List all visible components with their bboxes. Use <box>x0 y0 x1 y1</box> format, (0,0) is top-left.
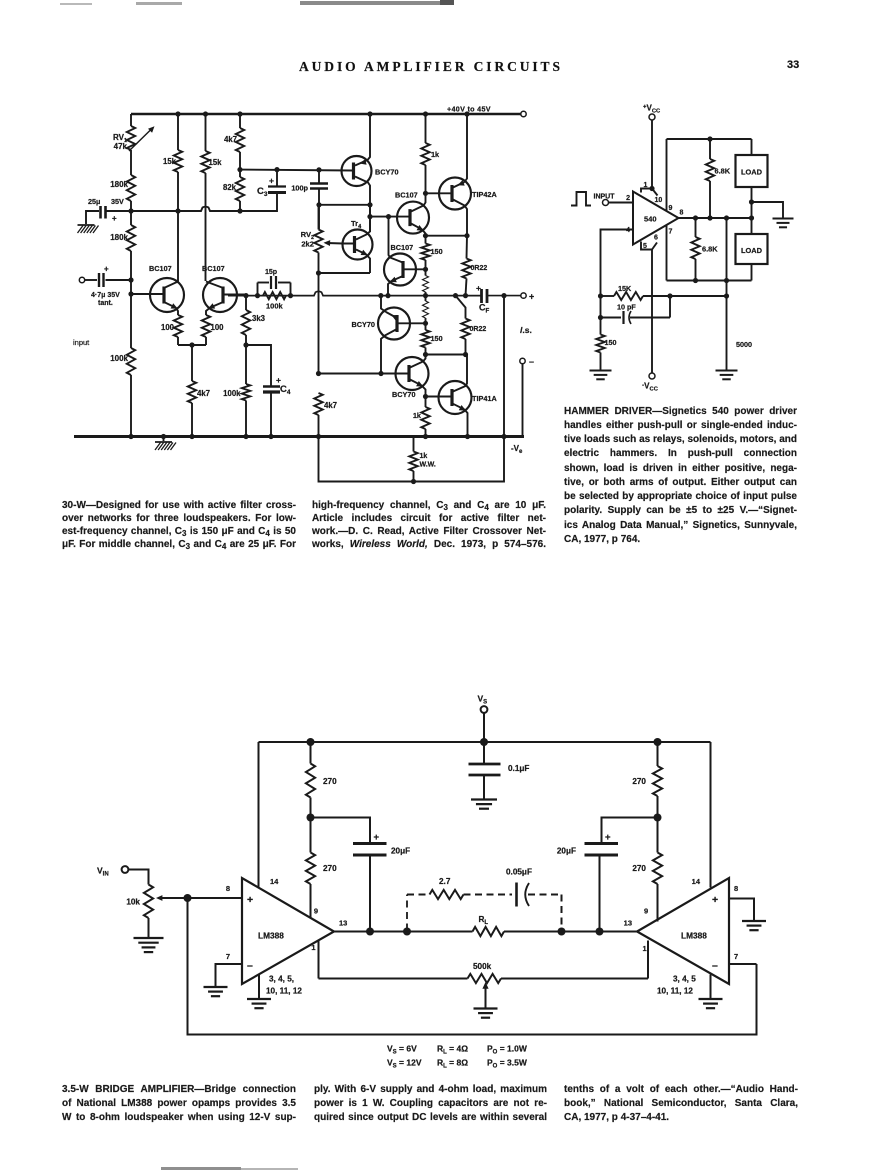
svg-text:-VCC: -VCC <box>642 382 659 393</box>
capacitor 100p <box>310 170 328 230</box>
svg-text:3k3: 3k3 <box>252 314 266 323</box>
ground 500k wiper <box>474 1009 498 1018</box>
potentiometer 10k <box>144 885 188 919</box>
wire 6.8K lower stubs <box>695 218 697 281</box>
label BC107 Tr6 <box>395 191 418 200</box>
svg-text:BC107: BC107 <box>395 191 418 200</box>
wire +40V supply rail with junction nodes <box>131 111 521 116</box>
wire output rail diagonal <box>456 296 466 319</box>
label 100k lower <box>223 389 241 398</box>
label 20uF left <box>391 847 410 856</box>
wire 270 right link <box>657 818 659 853</box>
transistor BC107 Tr2 <box>203 173 246 315</box>
svg-text:270: 270 <box>323 864 337 873</box>
svg-text:+40V to 45V: +40V to 45V <box>447 105 491 114</box>
wire output sense column <box>724 218 729 370</box>
wire 100p column to RV2 <box>318 205 320 230</box>
label right pins 345 <box>657 975 696 996</box>
wire left pin9 <box>310 884 312 918</box>
resistor 100k feedback <box>263 292 286 299</box>
svg-text:13: 13 <box>624 919 632 928</box>
wire 180k to node <box>130 201 132 211</box>
svg-text:LOAD: LOAD <box>741 168 763 177</box>
label 270 right lower <box>632 864 646 873</box>
label +40V to 45V <box>447 105 491 114</box>
label 82k <box>223 183 237 192</box>
svg-text:7: 7 <box>734 952 738 961</box>
ground hatched rail <box>155 434 176 450</box>
svg-text:6.8K: 6.8K <box>715 167 731 176</box>
wire ground rail <box>74 434 524 439</box>
svg-text:Tr4: Tr4 <box>351 219 362 230</box>
label pin 6 <box>654 235 658 242</box>
svg-text:+: + <box>104 265 109 274</box>
label 2.7 <box>439 877 451 886</box>
wire node to 100k lower <box>245 345 247 384</box>
resistor 1k WW <box>409 452 417 472</box>
svg-text:270: 270 <box>632 864 646 873</box>
wire minus terminal down <box>522 364 524 437</box>
label 150 upper <box>431 247 443 256</box>
label CF <box>479 303 490 315</box>
label +Vcc <box>643 104 661 115</box>
svg-text:1: 1 <box>643 944 647 953</box>
svg-text:9: 9 <box>669 205 673 212</box>
resistor 270 left lower <box>306 853 315 885</box>
ground 0.1uF <box>471 800 497 809</box>
transistor BC107 Tr6 <box>370 193 429 235</box>
label 100 right <box>211 323 225 332</box>
wire left pin14 drop <box>258 742 260 888</box>
resistor 4k7 top <box>236 128 244 152</box>
resistor 100 right <box>202 315 210 337</box>
wire speaker return <box>503 296 505 437</box>
label -Vcc <box>642 382 659 393</box>
label 3k3 <box>252 314 266 323</box>
svg-text:BCY70: BCY70 <box>392 390 416 399</box>
wire Tr4 emitter line <box>319 272 371 274</box>
wire rail to RV1 <box>130 114 132 126</box>
terminal +Vcc <box>649 114 655 120</box>
transistor TIP41A <box>439 355 472 437</box>
resistor 150 upper <box>421 244 429 261</box>
wire LOAD1 to LOAD2 <box>749 187 754 234</box>
wire snubber dashed left <box>406 895 408 931</box>
label 20uF right <box>557 847 576 856</box>
label Vin <box>97 866 109 878</box>
svg-text:–: – <box>529 357 534 367</box>
label 6.8K upper <box>715 167 731 176</box>
resistor 270 right upper <box>653 766 662 796</box>
label 10pF <box>617 303 636 312</box>
svg-text:C4: C4 <box>280 384 291 396</box>
svg-text:180k: 180k <box>110 233 128 242</box>
wire node to 180k lower <box>130 211 132 225</box>
capacitor 25u 35V <box>101 206 132 223</box>
label pin 10 <box>655 197 663 204</box>
resistor 2.7 snubber <box>430 890 464 899</box>
wire 180k lower to input node <box>128 251 133 297</box>
label 150 lower <box>431 334 443 343</box>
label 270 left lower <box>323 864 337 873</box>
wire 270 left upper stubs <box>307 742 315 822</box>
wire 270 left link <box>310 818 312 853</box>
svg-text:PO = 1.0W: PO = 1.0W <box>487 1044 528 1056</box>
label Vs <box>478 694 488 706</box>
svg-text:BC107: BC107 <box>149 264 172 273</box>
label BCY70 Tr9 <box>392 390 416 399</box>
svg-text:25μ: 25μ <box>88 197 100 206</box>
label 180k upper <box>110 180 128 189</box>
wire snubber dashed right <box>528 895 562 931</box>
svg-text:7: 7 <box>226 952 230 961</box>
label 100k input <box>110 354 128 363</box>
wire 270 right upper stubs <box>654 742 662 822</box>
capacitor C3 <box>268 170 286 193</box>
label 4k7 top <box>224 135 237 144</box>
wire 150 upper stubs <box>423 236 428 272</box>
resistor 1k top <box>421 143 429 165</box>
svg-text:VIN: VIN <box>97 866 109 878</box>
load box 2 <box>736 234 768 264</box>
ground output sense <box>716 371 738 380</box>
svg-text:CF: CF <box>479 303 490 315</box>
wire right pin14 drop <box>710 742 712 888</box>
wire 100k lower to ground rail <box>245 401 247 437</box>
wire pin7 down <box>666 225 668 281</box>
label 1k top <box>431 150 440 159</box>
svg-text:6.8K: 6.8K <box>702 245 718 254</box>
wire input to pin2 <box>609 202 634 204</box>
label 270 right upper <box>632 777 646 786</box>
svg-text:9: 9 <box>314 907 318 916</box>
transistor BCY70 Tr3 <box>342 114 372 232</box>
label 100k feedback <box>266 302 284 311</box>
wire RV2 column down <box>316 273 321 376</box>
wire 3k3 to node <box>243 335 248 348</box>
resistor 0R22 lower <box>461 319 469 340</box>
label left pin 14 <box>270 877 279 886</box>
wire right pin345 stub <box>710 975 712 999</box>
resistor 15K feedback <box>614 292 643 300</box>
svg-text:+: + <box>374 832 380 843</box>
svg-text:+: + <box>605 832 611 843</box>
label pin 7 <box>669 229 673 236</box>
wire output rail with jog <box>228 291 481 298</box>
wire 82k stubs <box>239 170 241 211</box>
svg-text:1: 1 <box>311 943 315 952</box>
wire hammer top rail <box>667 136 752 141</box>
wire TIP41A base <box>426 396 452 398</box>
label 6.8K lower <box>702 245 718 254</box>
svg-text:+: + <box>712 894 718 906</box>
svg-text:RL = 4Ω: RL = 4Ω <box>437 1044 468 1056</box>
resistor 150 bias upper faint <box>423 276 429 293</box>
wire emitter join <box>178 337 206 348</box>
label pin 4 <box>626 227 630 234</box>
svg-text:1: 1 <box>644 182 648 189</box>
svg-text:W.W.: W.W. <box>420 462 436 469</box>
page header title <box>299 59 563 75</box>
wire feedback loop bottom <box>188 898 757 1035</box>
label 270 left upper <box>323 777 337 786</box>
svg-text:20μF: 20μF <box>391 847 410 856</box>
resistor 15k left <box>174 150 182 211</box>
resistor 150 hammer <box>596 335 604 353</box>
label INPUT <box>594 194 616 201</box>
svg-text:2k2: 2k2 <box>301 240 314 249</box>
svg-text:10k: 10k <box>126 898 140 907</box>
svg-text:150: 150 <box>605 338 617 347</box>
label pin 5 <box>643 243 647 250</box>
label 0R22 lower <box>470 326 487 333</box>
svg-text:input: input <box>73 338 90 347</box>
capacitor C4 <box>263 387 280 437</box>
label C3 <box>257 176 274 199</box>
transistor BCY70 Tr9 <box>396 355 429 400</box>
wire pin6 stub <box>652 243 657 250</box>
wire 4k7 right to ground rail <box>318 415 320 437</box>
wire -Vcc line <box>651 250 653 374</box>
wire base line 373 <box>319 371 409 376</box>
svg-text:2: 2 <box>626 195 630 202</box>
svg-text:180k: 180k <box>110 180 128 189</box>
svg-text:540: 540 <box>644 215 657 224</box>
svg-text:C3: C3 <box>257 186 268 198</box>
svg-text:10: 10 <box>655 197 663 204</box>
svg-text:100k: 100k <box>110 354 128 363</box>
ground right pin345 <box>699 999 723 1008</box>
svg-text:270: 270 <box>323 777 337 786</box>
label BC107 Tr2 <box>202 264 225 273</box>
svg-text:47k: 47k <box>114 142 128 151</box>
ground pot <box>134 938 164 952</box>
transistor BC107 Tr7 <box>384 217 426 296</box>
wire LOAD2 bottom <box>751 264 753 281</box>
label BC107 Tr7 <box>391 243 414 252</box>
input pulse symbol <box>571 192 591 206</box>
wire left pin7 ground <box>216 964 243 987</box>
label 15p <box>265 269 277 276</box>
wire faint resistor stubs <box>425 269 427 295</box>
ground center tap <box>773 219 794 228</box>
label 1k lower <box>413 411 422 420</box>
wire left pin345 stub <box>258 975 260 999</box>
svg-text:PO = 3.5W: PO = 3.5W <box>487 1058 528 1070</box>
label left pins 345 <box>266 975 302 996</box>
wire 1k lower stubs <box>425 397 427 437</box>
svg-text:BCY70: BCY70 <box>375 168 399 177</box>
op-amp LM388 left <box>242 878 334 984</box>
resistor 100k input <box>127 348 135 375</box>
wire node to C4 <box>246 345 271 386</box>
svg-text:100: 100 <box>211 323 225 332</box>
svg-text:–: – <box>712 960 718 972</box>
label 1k WW <box>420 453 436 469</box>
wire right pin7 link <box>729 963 757 965</box>
wire 150 lower stubs <box>425 323 427 354</box>
svg-text:+: + <box>112 214 117 223</box>
svg-text:LM388: LM388 <box>258 931 284 941</box>
svg-text:8: 8 <box>734 884 738 893</box>
svg-text:1k: 1k <box>413 411 422 420</box>
wire rail to 1k <box>425 114 427 143</box>
svg-text:+VCC: +VCC <box>643 104 661 115</box>
wire bottom loop <box>319 437 505 485</box>
label pin 9 <box>669 205 673 212</box>
resistor RL <box>473 927 505 936</box>
wire bridge output line <box>334 928 637 936</box>
wire right pin9 <box>657 884 659 922</box>
svg-text:3, 4, 5,: 3, 4, 5, <box>269 975 294 984</box>
wire Tr3-Tr4 collector link <box>369 205 371 232</box>
wire bridge top rail <box>259 738 711 746</box>
svg-text:4k7: 4k7 <box>224 135 237 144</box>
svg-text:1k: 1k <box>420 453 428 460</box>
wire 0R22 to output rail <box>466 279 467 296</box>
label Tr4 <box>351 219 362 230</box>
wire TIP42A base <box>426 192 452 194</box>
terminal output minus <box>520 357 534 367</box>
wire hammer bottom rail <box>667 278 752 283</box>
svg-text:1k: 1k <box>431 150 440 159</box>
ground left pin345 <box>247 999 271 1008</box>
resistor 15k right <box>201 151 209 173</box>
label 25u 35V <box>88 197 124 206</box>
svg-text:-Ve: -Ve <box>511 444 523 455</box>
resistor 1k lower <box>421 407 429 429</box>
wire 500k wiper <box>482 982 488 1008</box>
label 500k <box>473 962 492 971</box>
resistor 180k lower <box>127 225 135 251</box>
wire 20uF right column <box>599 855 601 932</box>
label right pin 7 <box>734 952 738 961</box>
svg-text:6: 6 <box>654 235 658 242</box>
svg-text:2.7: 2.7 <box>439 877 451 886</box>
svg-text:5000: 5000 <box>736 340 752 349</box>
resistor 100 left <box>174 315 182 337</box>
svg-text:VS = 12V: VS = 12V <box>387 1058 422 1070</box>
label TIP42A <box>472 190 497 199</box>
svg-text:BCY70: BCY70 <box>351 320 375 329</box>
wire pin1 stub <box>641 189 652 193</box>
label 5000 <box>736 340 752 349</box>
resistor 150 lower <box>421 330 429 348</box>
wire collector join 235 <box>423 233 470 238</box>
resistor 3k3 <box>242 310 250 335</box>
terminal input <box>79 277 84 282</box>
wire rail to 4k7 top <box>239 114 241 128</box>
page number 33 <box>787 59 799 71</box>
potentiometer RV2 2k2 <box>314 230 322 253</box>
terminal +40V supply <box>521 111 526 116</box>
svg-text:0R22: 0R22 <box>471 265 488 272</box>
resistor 100k lower <box>242 384 250 401</box>
wire 6.8K upper stubs <box>709 139 711 218</box>
svg-text:4: 4 <box>626 227 630 234</box>
svg-text:15p: 15p <box>265 269 277 276</box>
resistor 500k <box>468 974 502 983</box>
label left pin 9 <box>314 907 318 916</box>
svg-text:100k: 100k <box>223 389 241 398</box>
ground hatched left <box>78 225 99 233</box>
svg-text:150: 150 <box>431 334 443 343</box>
svg-text:0.05μF: 0.05μF <box>506 868 532 877</box>
svg-text:BC107: BC107 <box>391 243 414 252</box>
resistor 6.8K lower <box>691 237 699 259</box>
ground left pin7 <box>204 987 228 996</box>
label left pin 13 <box>339 919 347 928</box>
label 180k lower <box>110 233 128 242</box>
terminal input 540 <box>603 200 609 206</box>
resistor 0R22 upper <box>462 259 470 279</box>
svg-text:20μF: 20μF <box>557 847 576 856</box>
svg-text:–: – <box>247 960 253 972</box>
svg-text:100k: 100k <box>266 302 284 311</box>
label right pin 1 <box>643 944 647 953</box>
label 10k <box>126 898 140 907</box>
wire RV1 to 180k <box>130 150 132 175</box>
wire rail to 15k left <box>177 114 179 150</box>
wire node 354 link <box>423 352 466 357</box>
label right pin 14 <box>692 877 701 886</box>
wire pin5 stub <box>641 242 652 250</box>
label RV1 47k <box>113 133 128 151</box>
wire bias line to C3 <box>240 193 277 212</box>
potentiometer RV1 47k <box>127 126 155 151</box>
svg-text:l.s.: l.s. <box>520 325 532 335</box>
svg-text:82k: 82k <box>223 183 237 192</box>
svg-text:15k: 15k <box>209 158 223 167</box>
wire pin8 output <box>679 215 755 220</box>
resistor 4k7 tail <box>188 381 196 403</box>
label 100p <box>291 184 308 193</box>
svg-text:100p: 100p <box>291 184 308 193</box>
wire pot to ground <box>148 918 150 938</box>
svg-text:8: 8 <box>680 210 684 217</box>
label left pin 8 <box>226 884 230 893</box>
svg-text:15K: 15K <box>618 284 632 293</box>
svg-text:LM388: LM388 <box>681 931 707 941</box>
wire 150 to ground <box>600 353 602 371</box>
wire Vs down <box>480 713 488 746</box>
scan artifact top edge line <box>60 3 92 5</box>
capacitor 0.05uF <box>517 883 530 907</box>
wire snubber dashed mid <box>407 894 512 896</box>
label 15K <box>618 284 632 293</box>
svg-text:0.1μF: 0.1μF <box>508 764 529 773</box>
svg-text:8: 8 <box>226 884 230 893</box>
svg-text:9: 9 <box>644 907 648 916</box>
wire 4k7 top to node <box>237 152 242 172</box>
wire 0R22 lower to node <box>463 339 468 357</box>
wire 500k line <box>319 978 649 980</box>
svg-text:7: 7 <box>669 229 673 236</box>
label pin 8 <box>680 210 684 217</box>
wire left pin1 drop <box>318 941 320 979</box>
svg-text:14: 14 <box>270 877 279 886</box>
wire pin9 up <box>666 139 668 211</box>
wire cap to ground <box>86 211 99 224</box>
svg-text:0R22: 0R22 <box>470 326 487 333</box>
wire feedback line <box>601 293 730 298</box>
wire pin10 stub <box>652 189 658 196</box>
svg-text:4·7μ 35V: 4·7μ 35V <box>91 292 120 299</box>
label 150 hammer <box>605 338 617 347</box>
svg-text:tant.: tant. <box>98 300 113 307</box>
label 4k7 right <box>324 401 337 410</box>
wire pin4 to feedback column <box>598 230 633 335</box>
